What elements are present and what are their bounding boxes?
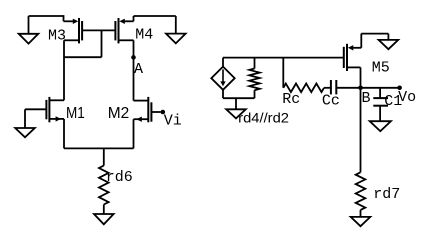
svg-text:rd4//rd2: rd4//rd2 xyxy=(238,109,289,125)
svg-text:M4: M4 xyxy=(135,27,153,44)
svg-text:Vi: Vi xyxy=(164,112,182,129)
svg-text:B: B xyxy=(362,90,371,107)
svg-text:Cc: Cc xyxy=(322,92,340,109)
svg-text:rd7: rd7 xyxy=(373,186,400,203)
svg-text:A: A xyxy=(134,61,143,78)
svg-text:M3: M3 xyxy=(48,28,66,45)
svg-text:Rc: Rc xyxy=(282,91,300,108)
svg-text:Vo: Vo xyxy=(398,89,416,106)
svg-text:rd6: rd6 xyxy=(106,169,133,186)
svg-text:M5: M5 xyxy=(372,60,390,77)
svg-text:M1: M1 xyxy=(66,105,85,122)
svg-text:M2: M2 xyxy=(108,105,130,122)
